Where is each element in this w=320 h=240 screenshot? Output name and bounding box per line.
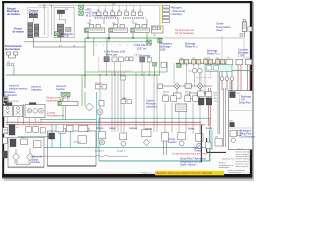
relais 1 left — [3, 106, 12, 117]
svg-text:Relais: Relais — [188, 128, 195, 130]
wire relay drops — [8, 117, 41, 125]
cluster 6 relais pompe — [196, 134, 203, 149]
label vanne purge — [32, 156, 43, 165]
wire reservoir box bottom — [47, 165, 96, 167]
coil stubs — [182, 64, 211, 68]
svg-text:Un pas generique haut parametr: Un pas generique haut parametre — [172, 153, 208, 156]
wire trio — [154, 75, 157, 132]
red feed line — [6, 124, 205, 126]
svg-text:MAS 1020: MAS 1020 — [61, 33, 73, 36]
svg-text:2a: 2a — [50, 4, 52, 6]
svg-text:Dopis i devent: Dopis i devent — [180, 163, 196, 166]
teal trunk x60 — [60, 131, 62, 148]
wire green branch x94 — [93, 38, 95, 56]
wire pair capteur — [136, 72, 144, 130]
svg-text:120: 120 — [147, 56, 150, 58]
teal rail y161 — [99, 160, 210, 162]
svg-text:236: 236 — [215, 137, 218, 139]
capteur cluster 3 — [142, 130, 151, 146]
svg-text:Relais F1 n: Relais F1 n — [207, 53, 220, 56]
svg-text:1: 1 — [127, 45, 128, 47]
cluster 5 relais — [178, 133, 186, 146]
svg-text:270: 270 — [207, 58, 210, 60]
cluster B2 capteur PMH — [134, 55, 157, 75]
yellow title strip — [155, 171, 224, 176]
svg-text:injection essence: injection essence — [9, 88, 28, 91]
svg-text:2: 2 — [111, 45, 112, 47]
spark left stub box — [158, 84, 163, 89]
svg-text:de fusibles: de fusibles — [7, 13, 21, 16]
svg-text:canister: canister — [32, 161, 41, 164]
teal wire mid left — [18, 136, 52, 138]
svg-text:CO pot: CO pot — [74, 141, 81, 144]
svg-text:Delay Plus: Delay Plus — [239, 102, 251, 105]
teal pair right — [209, 130, 212, 161]
svg-text:d'eau: d'eau — [216, 28, 223, 32]
battery feed symbol 2 — [79, 11, 84, 15]
svg-text:Capacitee: Capacitee — [31, 89, 42, 92]
green pair motor — [82, 75, 85, 106]
ground mass under C4 — [147, 40, 151, 44]
blue note pump — [180, 157, 206, 166]
squiggle wire pair — [30, 155, 128, 157]
svg-text:Relais F1 n: Relais F1 n — [185, 46, 198, 49]
coil circles — [192, 68, 197, 73]
svg-text:12: 12 — [95, 45, 97, 47]
wire gray right link — [163, 37, 243, 39]
green rail mid — [85, 71, 167, 73]
wire canister box bottom — [8, 166, 44, 168]
connector strip dashed — [95, 17, 146, 19]
title block text — [236, 148, 252, 168]
svg-text:Gestion: Gestion — [173, 12, 183, 16]
pump cluster 2 — [120, 133, 127, 146]
ign wide connector — [176, 104, 187, 112]
air produit cluster — [104, 50, 126, 75]
pump box teal — [99, 118, 210, 161]
red note engine left — [46, 97, 71, 103]
svg-text:Pompe: Pompe — [96, 128, 104, 130]
svg-text:Injection: Injection — [168, 141, 177, 144]
tach boxes — [95, 83, 107, 89]
svg-text:1: 1 — [103, 45, 104, 47]
connector hatch a — [5, 103, 12, 106]
svg-text:des lanceurs: des lanceurs — [3, 94, 18, 97]
relay strip 1020 — [58, 100, 78, 120]
potentiometre label — [5, 45, 22, 51]
MAS ground — [55, 32, 59, 36]
svg-text:Capteur: Capteur — [129, 127, 137, 130]
labels under pump — [95, 151, 126, 153]
wire drop to relay box R1 — [44, 5, 80, 8]
relay cluster C3 — [131, 23, 149, 33]
red note 2 — [47, 112, 65, 118]
left edge connector small — [3, 128, 8, 134]
svg-text:522: 522 — [214, 98, 217, 100]
ground coil left — [177, 64, 181, 68]
trunk dark vertical — [201, 125, 226, 162]
wire masse A1 drop — [33, 37, 60, 42]
sensor mark small — [7, 62, 14, 75]
small pins under MAS — [59, 45, 76, 47]
relay cluster C2 — [109, 23, 127, 33]
svg-text:MAS: MAS — [122, 97, 127, 100]
svg-text:1006: 1006 — [160, 49, 166, 52]
svg-text:240: 240 — [180, 58, 183, 60]
sonde temperature d'eau — [240, 19, 252, 38]
triple lamp box — [25, 105, 45, 118]
connector stack inside A1 — [28, 23, 39, 38]
spark plug 1 — [175, 84, 180, 89]
svg-text:1 OR: 1 OR — [238, 55, 244, 58]
junction nodes — [87, 37, 88, 38]
svg-text:Metre gaz: Metre gaz — [106, 53, 118, 56]
injector return pair — [209, 88, 211, 126]
svg-text:na vn me op z: na vn me op z — [229, 172, 241, 174]
wires fuse drops — [90, 19, 147, 26]
battery feed symbol 1 — [79, 5, 84, 9]
relay cluster C4 — [151, 26, 163, 37]
green drop x23 — [23, 104, 25, 124]
wires right pair — [218, 72, 225, 147]
label lanceurs injection — [9, 85, 67, 92]
svg-text:272: 272 — [246, 58, 249, 60]
svg-text:Clio Electrique: Clio Electrique — [240, 136, 256, 139]
svg-text:Refroidissement: Refroidissement — [47, 114, 65, 117]
svg-text:Jauge 2: Jauge 2 — [117, 151, 126, 153]
pump cluster 1 — [98, 132, 105, 145]
canister box L1 — [8, 137, 44, 167]
svg-text:241: 241 — [192, 58, 195, 60]
junction dots on rail — [84, 74, 155, 75]
labels +APC +AVC — [85, 9, 118, 18]
small box left of box B — [206, 142, 212, 149]
svg-text:Datasheet noir: Datasheet noir — [222, 157, 235, 160]
svg-text:243: 243 — [216, 58, 219, 60]
svg-text:inertie: inertie — [206, 127, 213, 130]
relay box 236 (A2) — [54, 7, 74, 37]
fuse stack top right — [162, 5, 173, 22]
svg-text:HY qa l'essence: HY qa l'essence — [175, 31, 194, 35]
label Boitier Memoire — [173, 6, 186, 16]
svg-text:Pompe: Pompe — [168, 139, 176, 141]
svg-text:quadcsyfirm: quadcsyfirm — [219, 166, 230, 169]
svg-text:420 421: 420 421 — [95, 83, 102, 85]
svg-text:collecteur: collecteur — [146, 106, 157, 109]
wire yellow — [159, 7, 161, 31]
svg-text:electronique: electronique — [5, 48, 20, 51]
wire bundle center — [100, 72, 124, 133]
ground mass at yellow terminus — [158, 39, 162, 43]
green drop right — [166, 62, 168, 72]
svg-text:1020: 1020 — [59, 100, 63, 102]
svg-text:a1 b1: a1 b1 — [163, 94, 168, 96]
boxes near box B left — [215, 137, 222, 146]
svg-text:edition speciale: edition speciale — [236, 165, 249, 168]
svg-text:523: 523 — [214, 101, 217, 103]
connector hatch b — [29, 103, 36, 106]
label Tresse de masse — [13, 28, 25, 34]
svg-text:de masse: de masse — [13, 31, 25, 34]
relay cluster C1 — [84, 23, 104, 33]
cluster B1 throttle — [125, 57, 133, 61]
svg-text:Nota B: Nota B — [237, 148, 244, 151]
pump cluster labels — [96, 127, 213, 152]
labels row small — [3, 101, 18, 103]
capteur pression label — [146, 100, 157, 109]
sensor box on rail — [121, 76, 126, 80]
teal drop left — [96, 92, 98, 148]
svg-text:a2 b2: a2 b2 — [185, 94, 190, 96]
teal band — [205, 65, 232, 72]
plug wires down — [177, 88, 200, 93]
throttle box — [99, 101, 104, 107]
ecu left edge connector stack — [3, 97, 8, 104]
green branch — [106, 38, 108, 56]
injectors — [220, 71, 234, 90]
reservoir box L2 — [47, 126, 96, 166]
wire step left — [34, 42, 86, 47]
coil secondary wires — [174, 63, 205, 93]
suppressor block — [185, 84, 191, 88]
box B bobinage — [228, 91, 255, 150]
spark rail — [160, 85, 212, 87]
ignition verticals — [165, 99, 200, 134]
calculateur dashed boundary — [99, 57, 133, 71]
wires verticals between boxes — [45, 6, 52, 35]
wire drops to bus — [88, 33, 147, 42]
fuse row F1..F6 — [97, 12, 143, 15]
teal rail y147 — [42, 147, 209, 149]
label sonde — [216, 22, 231, 32]
label Boitier electrique top-left — [7, 7, 21, 16]
regulator diamond — [86, 103, 94, 111]
top row bottom-left comps — [9, 124, 88, 135]
svg-text:1a: 1a — [43, 4, 45, 6]
left small stack — [3, 137, 7, 158]
coil connector pairs — [180, 59, 225, 64]
red note top — [175, 28, 194, 35]
aux motor circle — [85, 127, 89, 131]
notes left of title block — [219, 157, 235, 169]
green rail low — [6, 74, 160, 76]
cluster 4 — [162, 133, 169, 155]
svg-text:2027 bis: 2027 bis — [137, 47, 147, 50]
teal wire upper left — [40, 119, 96, 121]
green trunk down left — [84, 38, 86, 88]
svg-text:b20: b20 — [230, 120, 233, 122]
border frame — [2, 1, 254, 181]
green bus 1 — [85, 37, 163, 39]
mas label cluster — [121, 97, 132, 104]
svg-text:RENAULT TWIN moteur E06 E07 D3: RENAULT TWIN moteur E06 E07 D3F D7F 1996… — [157, 172, 213, 175]
svg-text:Jauge: Jauge — [109, 128, 116, 130]
dark trunk — [159, 38, 161, 75]
spark plug 2 — [198, 84, 203, 89]
svg-text:521: 521 — [214, 95, 217, 97]
pump motor symbol — [97, 109, 103, 115]
relais 2 left — [14, 106, 23, 117]
svg-text:12: 12 — [119, 45, 121, 47]
teal trunk x52 — [51, 124, 53, 148]
pin numbers under bus — [95, 45, 152, 47]
maroon feed line — [6, 121, 201, 123]
relay box 238 (A1) — [27, 8, 48, 38]
svg-text:Page 1 / 2: Page 1 / 2 — [142, 173, 152, 175]
svg-text:271: 271 — [227, 58, 230, 60]
bobine boxes low — [174, 93, 207, 99]
bottom right small text — [228, 169, 245, 174]
green bus 2 — [24, 41, 150, 43]
right sensors row — [226, 59, 252, 64]
potentiometre symbol — [7, 52, 18, 58]
ign cluster boxes — [163, 96, 199, 102]
svg-text:injection: injection — [56, 88, 65, 91]
wire top bus — [38, 4, 161, 6]
right cluster feu — [198, 91, 217, 105]
aux box left of coils — [161, 63, 166, 68]
middle blue labels row — [134, 43, 249, 58]
label actuateurs — [3, 91, 18, 97]
svg-text:520: 520 — [214, 92, 217, 94]
svg-text:Pompe 1: Pompe 1 — [95, 151, 105, 153]
coil bar — [176, 62, 226, 64]
injector feeds red — [238, 65, 241, 91]
wire teal x70 — [69, 132, 71, 148]
ground symbols green — [61, 92, 65, 96]
